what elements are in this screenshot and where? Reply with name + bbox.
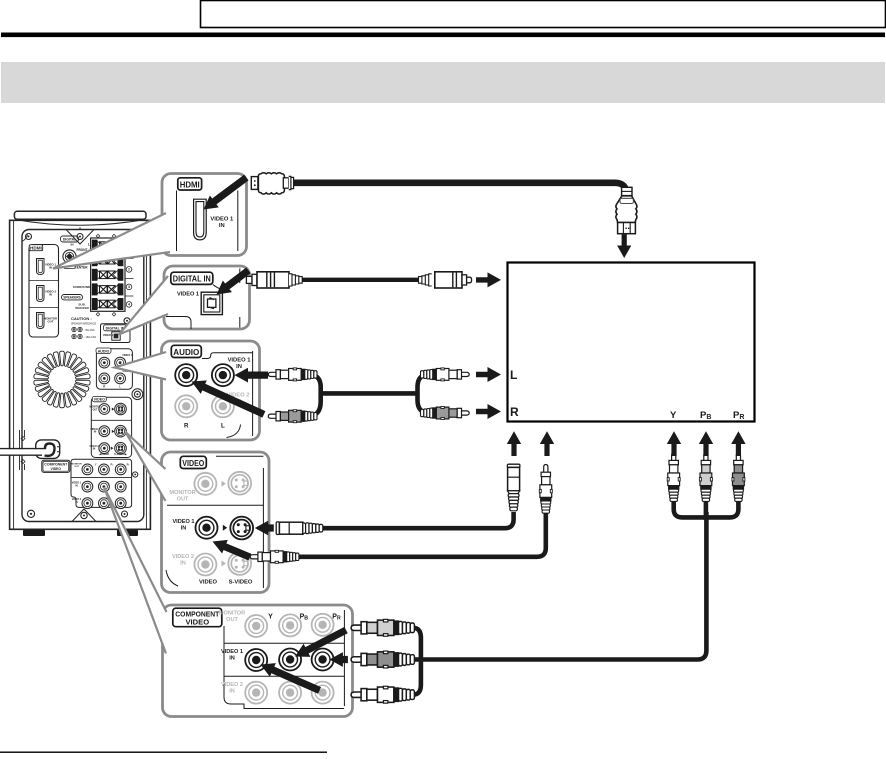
- s-video plug (callout end): [276, 522, 323, 535]
- optical port on panel: [112, 332, 120, 340]
- screw bottom right: [122, 511, 128, 517]
- COMPONENT VIDEO section: [71, 459, 132, 507]
- video 1 in video jack: [196, 517, 218, 539]
- video 1 in s-video jack: [230, 517, 253, 540]
- arrow into Pb jack: [292, 623, 350, 663]
- bottom middle screw plate: [72, 509, 96, 522]
- svg-text:R: R: [510, 405, 519, 419]
- monitor out Pr jack (inactive): [312, 614, 334, 636]
- audio jack R (VIDEO 2, inactive): [175, 395, 197, 417]
- svg-text:AUDIO: AUDIO: [98, 349, 110, 353]
- HDMI plug at receiver end: [251, 173, 293, 194]
- COMPONENT VIDEO callout box: [163, 605, 353, 717]
- optical cable: [302, 278, 421, 282]
- monitor out Y jack (inactive): [245, 615, 267, 637]
- svg-text:IN: IN: [49, 293, 52, 297]
- DIGITAL IN label box: [171, 272, 213, 284]
- footnote rule: [0, 752, 327, 753]
- HDMI label box: [178, 178, 202, 190]
- VIDEO label box: [180, 456, 206, 468]
- svg-text:VIDEO 2: VIDEO 2: [221, 682, 243, 688]
- cabinet side inner lines: [14, 220, 147, 529]
- VIDEO section: [91, 397, 131, 457]
- svg-text:VIDEO: VIDEO: [199, 580, 218, 586]
- s-video cable: [320, 512, 514, 528]
- component plug blue/Pb (callout end): [351, 651, 414, 668]
- coaxial jack label pill: [64, 265, 76, 269]
- foot left: [23, 530, 45, 536]
- svg-text:AUDIO: AUDIO: [173, 347, 199, 357]
- AUDIO callout box: [162, 341, 260, 440]
- arrow into s-video 1 jack: [255, 521, 274, 536]
- leader funnel to AUDIO callout: [115, 352, 167, 380]
- AUDIO label box: [171, 345, 201, 357]
- arrow up into TV bottom (s-video): [507, 431, 521, 456]
- screw right of optical: [124, 318, 130, 324]
- arrow up into TV bottom (Pr): [731, 431, 745, 456]
- arrow right into TV left (audio R): [476, 404, 501, 419]
- svg-text:IN: IN: [219, 223, 225, 229]
- VIDEO panel art fragments: [166, 456, 263, 588]
- svg-text:VIDEO: VIDEO: [51, 467, 62, 471]
- corner screw BL: [27, 510, 34, 517]
- optical plug at receiver end: [246, 272, 302, 288]
- svg-text:: 16Ω-16Ω: : 16Ω-16Ω: [84, 335, 96, 339]
- foot right: [117, 530, 138, 536]
- video RCA plug (TV end): [539, 465, 552, 514]
- cabinet top bar: [14, 211, 146, 219]
- audio splitter cable left bracket: [303, 374, 321, 416]
- arrow up into TV bottom (Pb): [699, 431, 713, 456]
- svg-text:IN: IN: [75, 484, 78, 487]
- HDMI row divider: [29, 280, 59, 282]
- svg-text:Y: Y: [268, 614, 273, 621]
- video 2 Pb jack (inactive): [279, 682, 301, 704]
- gray band: [1, 62, 885, 103]
- svg-text:IN: IN: [75, 501, 78, 504]
- svg-text:VIDEO 1: VIDEO 1: [172, 519, 194, 525]
- audio splitter trunk: [319, 391, 420, 396]
- TV box: [508, 263, 755, 422]
- svg-text:OUT: OUT: [92, 408, 98, 411]
- arrow into video 1 jack: [210, 535, 253, 564]
- svg-text:SURROUND: SURROUND: [73, 285, 91, 289]
- svg-text:◀VIDEO: ◀VIDEO: [98, 452, 109, 456]
- arrow up into TV bottom (Y): [667, 431, 681, 456]
- video 2 in s-video jack (inactive): [228, 552, 251, 575]
- panel left edge lines with diamond screws: [20, 430, 25, 470]
- svg-text:PB: PB: [300, 614, 309, 622]
- svg-text:Pₑ: Pₑ: [127, 463, 130, 467]
- svg-text:L: L: [119, 385, 121, 389]
- component trunk cable: [413, 512, 706, 660]
- AUDIO panel art fragments: [202, 351, 253, 438]
- power cord grommet: [36, 440, 60, 459]
- HDMI port video2 in: [37, 286, 45, 302]
- arrow into optical port: [212, 265, 253, 301]
- audio panel jacks: [99, 353, 133, 388]
- component junction below TV: [674, 500, 706, 517]
- speaker group divider lines: [125, 259, 134, 297]
- svg-text:HDMI: HDMI: [30, 246, 42, 251]
- monitor out s-video jack (inactive): [228, 472, 251, 495]
- monitor out Pb jack (inactive): [279, 614, 301, 636]
- svg-text:CAUTION :: CAUTION :: [71, 316, 92, 321]
- power cord strain loop: [45, 444, 55, 456]
- screw right of audio: [132, 389, 143, 400]
- svg-text:IN: IN: [229, 689, 235, 695]
- svg-text:OUT: OUT: [48, 320, 54, 324]
- terminal diamonds: [96, 234, 116, 316]
- audio plug R gray (TV end): [421, 407, 470, 420]
- svg-text:S-VIDEO▶: S-VIDEO▶: [114, 452, 128, 456]
- speaker terminals rows: [92, 240, 124, 310]
- svg-text:WOOFER: WOOFER: [75, 306, 89, 310]
- video 1 Pr jack: [312, 649, 334, 671]
- svg-text:L: L: [88, 243, 90, 247]
- video RCA plug (callout end): [250, 550, 299, 563]
- component bracket at callout: [412, 628, 421, 695]
- DIGITAL IN callout box: [164, 266, 250, 329]
- video 1 Pb jack: [279, 649, 301, 671]
- cabinet body: [10, 220, 151, 529]
- svg-text:MONITOR: MONITOR: [219, 611, 245, 617]
- screw above component: [133, 472, 138, 477]
- svg-text:VIDEO 1: VIDEO 1: [221, 649, 243, 655]
- AUDIO section: [96, 349, 132, 390]
- corner screw TL: [22, 234, 32, 242]
- audio plug R gray (left): [268, 410, 317, 423]
- svg-text:IN: IN: [71, 243, 74, 247]
- svg-text:VIDEO 2: VIDEO 2: [172, 554, 194, 560]
- svg-text:R: R: [103, 385, 105, 389]
- terminal circled numbers: [126, 249, 132, 308]
- svg-text:: 8Ω-16Ω: : 8Ω-16Ω: [84, 328, 95, 332]
- triangle marks: [222, 481, 226, 487]
- svg-text:IN: IN: [181, 526, 187, 532]
- video 2 Pr jack (inactive): [312, 682, 334, 704]
- svg-text:VIDEO 1: VIDEO 1: [177, 292, 199, 298]
- fan: [34, 351, 91, 408]
- svg-text:4: 4: [128, 303, 130, 307]
- s-video plug (TV end): [507, 464, 520, 511]
- arrow up into TV bottom (video): [540, 431, 554, 456]
- audio plug L white (TV end): [421, 368, 470, 381]
- svg-text:DIGITAL: DIGITAL: [63, 238, 76, 242]
- header box: [201, 1, 886, 28]
- svg-text:OUT: OUT: [226, 617, 238, 623]
- component plug green/Y (callout end): [351, 619, 414, 636]
- component plug Pb (TV end): [699, 453, 712, 502]
- svg-text:DIGITAL IN: DIGITAL IN: [173, 274, 211, 284]
- svg-text:IN: IN: [236, 364, 242, 370]
- component plug Y (TV end): [667, 453, 680, 502]
- HDMI section label: [29, 245, 43, 251]
- svg-text:VIDEO: VIDEO: [185, 617, 209, 626]
- svg-text:L: L: [221, 423, 225, 430]
- svg-text:VIDEO 1: VIDEO 1: [228, 358, 252, 364]
- optical plug at TV end: [419, 272, 472, 288]
- video 2 Y jack (inactive): [245, 682, 267, 704]
- DIGITAL IN optical section: [101, 324, 131, 343]
- audio jack L (VIDEO 2, inactive): [212, 395, 234, 417]
- speaker terminal block: [91, 238, 125, 311]
- svg-text:VIDEO 1: VIDEO 1: [122, 353, 133, 357]
- arrow into HDMI port: [199, 172, 251, 216]
- audio jack L (VIDEO 1): [212, 364, 234, 386]
- component plug Pr (TV end): [732, 453, 745, 502]
- svg-text:IN: IN: [49, 266, 52, 270]
- svg-text:VIDEO: VIDEO: [182, 458, 204, 468]
- leader funnel to COMPONENT VIDEO callout: [104, 487, 167, 654]
- leader funnel to DIGITAL IN callout: [119, 276, 168, 335]
- svg-text:HDMI: HDMI: [180, 179, 200, 189]
- arrow right into TV left (optical): [476, 272, 501, 287]
- svg-text:PR: PR: [332, 614, 341, 622]
- screw top middle: [77, 234, 83, 240]
- video 2 in video jack (inactive): [194, 554, 216, 576]
- HDMI callout box: [162, 174, 247, 256]
- arrow into audio L jack: [235, 368, 269, 383]
- svg-text:OUT: OUT: [74, 466, 79, 468]
- audio splitter right bracket: [418, 374, 435, 413]
- audio jack R (VIDEO 1): [175, 364, 197, 386]
- coaxial digital jack: [63, 250, 76, 263]
- cabinet top sag curve: [15, 220, 145, 230]
- HDMI section box: [29, 245, 59, 338]
- svg-text:2: 2: [128, 268, 130, 272]
- HDMI port video1 in: [37, 259, 45, 275]
- DIGITAL label pill: [61, 236, 79, 242]
- video 1 Y jack: [245, 649, 267, 671]
- svg-text:L: L: [510, 368, 517, 382]
- svg-text:3: 3: [128, 285, 130, 289]
- svg-text:OUT: OUT: [177, 497, 189, 503]
- leader funnel to HDMI callout: [53, 213, 170, 269]
- svg-text:VIDEO: VIDEO: [94, 398, 105, 402]
- arrow into audio R jack: [188, 375, 267, 421]
- svg-text:SPEAKERS: SPEAKERS: [63, 296, 81, 300]
- HDMI panel art fragment lines: [177, 191, 238, 252]
- leader funnel to VIDEO callout: [126, 432, 166, 501]
- audio plug L white (left): [268, 368, 317, 381]
- svg-text:SPEAKER IMPEDANCE: SPEAKER IMPEDANCE: [71, 323, 97, 326]
- svg-text:P₂: P₂: [111, 463, 115, 467]
- HDMI port monitor out: [37, 313, 45, 329]
- monitor out video jack (inactive): [194, 473, 216, 495]
- svg-text:IN: IN: [180, 561, 186, 567]
- screw bottom middle: [81, 512, 87, 518]
- arrow right into TV left (audio L): [476, 367, 501, 382]
- top middle screw plate: [66, 230, 94, 245]
- svg-text:S-VIDEO: S-VIDEO: [229, 580, 253, 586]
- DIGITAL IN panel art fragments: [166, 269, 240, 330]
- svg-text:IN: IN: [93, 448, 96, 451]
- VIDEO callout box: [162, 452, 270, 593]
- rear panel plate: [22, 230, 144, 522]
- svg-text:IN: IN: [94, 431, 97, 434]
- HDMI port U1 (VIDEO 1 IN): [194, 199, 207, 240]
- svg-text:Y: Y: [670, 410, 677, 421]
- svg-text:MONITOR: MONITOR: [169, 490, 195, 496]
- HDMI row divider 2: [29, 307, 59, 309]
- power cord to left: [0, 449, 45, 454]
- svg-text:R: R: [184, 423, 189, 430]
- svg-text:IN: IN: [229, 656, 235, 662]
- arrow down into TV top (HDMI): [617, 235, 631, 259]
- HDMI cable: [292, 183, 626, 198]
- arrow into Pr jack: [329, 652, 348, 667]
- thick rule: [1, 33, 885, 38]
- svg-text:VIDEO 1: VIDEO 1: [210, 217, 234, 223]
- optical port (VIDEO 1): [201, 292, 222, 314]
- video RCA cable: [297, 502, 546, 557]
- arrow into Y jack: [258, 658, 323, 697]
- HDMI plug above TV: [616, 187, 637, 233]
- svg-text:Y: Y: [95, 463, 97, 467]
- COMPONENT panel art fragments: [224, 610, 344, 709]
- component plug red/Pr (callout end): [351, 686, 414, 703]
- COMPONENT VIDEO label box: [173, 608, 222, 627]
